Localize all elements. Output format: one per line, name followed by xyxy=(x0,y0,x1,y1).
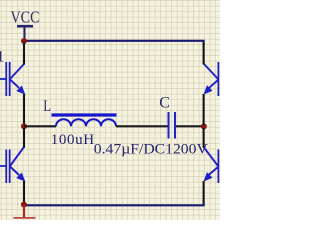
power port VCC xyxy=(11,7,40,41)
svg-text:100uH: 100uH xyxy=(51,132,95,148)
pin Q3 emitter xyxy=(203,94,205,125)
svg-text:VCC: VCC xyxy=(11,7,40,26)
pin Q2 emitter (wire to bottom rail) xyxy=(23,181,25,203)
svg-text:0.47µF/DC1200V: 0.47µF/DC1200V xyxy=(94,142,208,158)
power port GND (red bar, bottom) xyxy=(14,205,36,218)
wire capacitor to right node xyxy=(176,125,204,127)
transistor Q1 (upper-left IGBT) xyxy=(0,62,25,96)
pin Q1 emitter (wire to mid node) xyxy=(23,94,25,125)
wire mid node to inductor xyxy=(24,125,56,127)
junction right mid node xyxy=(201,123,207,129)
inductor L1 (100uH) xyxy=(52,115,117,126)
svg-text:C: C xyxy=(159,95,170,112)
junction bottom-left node xyxy=(21,202,27,208)
wire VCC top rail xyxy=(24,41,204,44)
transistor Q3 (upper-right IGBT, mirrored) xyxy=(203,62,221,96)
svg-text:1: 1 xyxy=(0,49,5,66)
wire bottom rail xyxy=(24,202,204,205)
pin Q4 emitter xyxy=(203,181,205,203)
pin Q4 collector xyxy=(203,128,205,148)
capacitor C1 xyxy=(169,112,176,139)
pin Q3 collector xyxy=(203,43,205,65)
wire inductor to capacitor xyxy=(116,125,168,127)
junction mid-left node (L input) xyxy=(21,123,27,129)
junction at VCC rail / Q1 collector xyxy=(21,38,27,44)
pin Q1 collector (wire to rail) xyxy=(23,43,25,65)
transistor Q2 (lower-left IGBT) xyxy=(0,147,25,183)
pin Q2 collector (wire from mid node) xyxy=(23,128,25,148)
transistor Q4 (lower-right IGBT, mirrored) xyxy=(203,147,221,183)
svg-text:L: L xyxy=(43,98,51,115)
